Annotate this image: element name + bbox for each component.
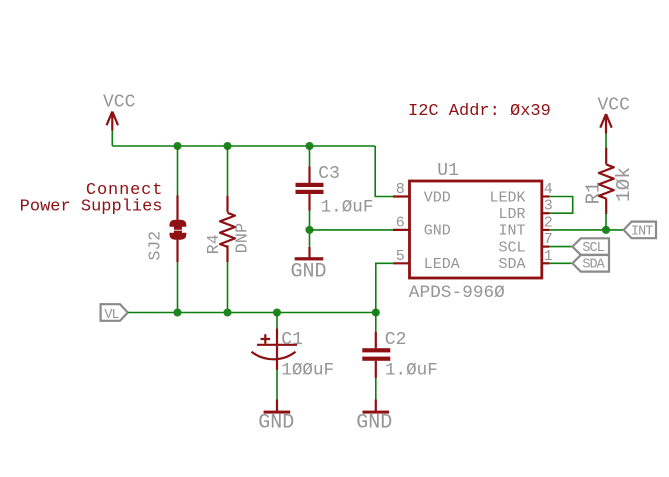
svg-text:GND: GND [290,260,326,283]
svg-text:INT: INT [498,223,525,240]
svg-text:1.ØuF: 1.ØuF [385,360,438,380]
node junction bottom C2/LEDA [372,308,380,316]
svg-text:SDA: SDA [582,258,605,273]
svg-text:R4: R4 [204,234,223,254]
svg-text:6: 6 [396,214,405,231]
svg-text:R1: R1 [583,182,605,205]
wire LEDK to LDR loop [549,197,573,214]
pin 4 LEDK stub [542,195,550,197]
capacitor C2 [362,330,437,381]
net flag SDA [572,255,609,273]
svg-text:SJ2: SJ2 [146,231,165,261]
svg-text:VDD: VDD [424,189,451,206]
power flag VCC right [598,95,631,133]
wire R4 top [227,146,229,196]
svg-text:I2C Addr: Øx39: I2C Addr: Øx39 [408,102,551,121]
svg-text:Power Supplies: Power Supplies [20,198,163,217]
svg-text:SDA: SDA [498,256,525,273]
node junction top R4 [223,142,231,150]
wire LEDA down to rail [376,263,394,312]
svg-text:C3: C3 [318,164,340,184]
svg-text:5: 5 [396,248,405,265]
wire C1 bottom [276,370,278,401]
pin 3 LDR stub [542,212,550,214]
pin 7 SCL stub [542,246,550,248]
wire top rail down to pin8 [375,146,394,197]
node junction bottom SJ2 [173,308,181,316]
svg-text:3: 3 [544,198,553,215]
svg-text:LEDA: LEDA [424,256,460,273]
svg-text:VCC: VCC [103,92,136,112]
net flag SCL [572,238,609,256]
pin 5 LEDA stub [393,262,410,264]
wire R1 top to VCC [605,134,607,149]
svg-text:C1: C1 [281,330,303,350]
wire pin1 to SDA flag [549,262,572,264]
node junction top SJ2 [173,142,181,150]
wire R1 bottom [605,214,607,230]
resistor R1 [583,148,636,214]
svg-text:VCC: VCC [598,95,631,115]
node junction top C3 [305,142,313,150]
wire pin7 to SCL flag [549,246,572,248]
svg-text:1ØØuF: 1ØØuF [281,360,334,380]
wire bottom rail [128,312,376,314]
svg-text:7: 7 [544,231,553,248]
pin 6 GND stub [393,229,410,231]
wire C3 top [309,146,311,167]
svg-text:DNP: DNP [234,223,253,254]
pin 8 VDD stub [393,195,410,197]
pin 2 INT stub [542,229,550,231]
node junction bottom C1 [273,308,281,316]
svg-text:INT: INT [631,225,653,240]
svg-text:SCL: SCL [498,239,525,256]
wire SJ2 top [177,146,179,196]
wire VCC stem [111,131,113,147]
net flag INT [624,222,656,240]
wire junction to pin6 [310,229,395,231]
svg-text:U1: U1 [437,161,459,181]
svg-text:GND: GND [356,412,392,435]
svg-text:1.ØuF: 1.ØuF [321,198,374,218]
svg-text:C2: C2 [385,330,407,350]
capacitor C1 polarized [252,329,335,381]
wire C2 bottom [375,378,377,401]
wire C1 top [276,313,278,330]
solder jumper SJ2 [146,196,187,263]
svg-text:1Øk: 1Øk [613,167,635,202]
node junction INT/R1 [602,226,610,234]
svg-text:LEDK: LEDK [489,189,525,206]
ground GND under C3 [290,247,326,283]
svg-text:8: 8 [396,181,405,198]
wire C2 top [375,313,377,333]
wire C3 to gnd junction [309,211,311,249]
wire top rail [112,145,375,147]
node junction C3/pin6 [305,226,313,234]
svg-text:1: 1 [544,248,553,265]
wire R4 bottom [227,262,229,313]
op-amp U1 APDS-9960 box [409,161,542,303]
net flag VL [101,304,128,323]
capacitor C3 [296,164,374,218]
wire SJ2 bottom [177,262,179,313]
ground GND under C2 [356,400,392,435]
svg-text:APDS-996Ø: APDS-996Ø [409,283,505,303]
ground GND under C1 [258,400,294,435]
svg-text:LDR: LDR [498,206,525,223]
resistor R4 [204,196,253,262]
svg-text:VL: VL [104,308,119,323]
power flag VCC left [103,92,136,130]
svg-text:2: 2 [544,214,553,231]
node junction bottom R4 [223,308,231,316]
svg-text:GND: GND [258,412,294,435]
svg-text:GND: GND [424,223,451,240]
svg-text:4: 4 [544,181,553,198]
wire pin2 to INT node [549,229,624,231]
text note Connect Power Supplies [20,181,164,217]
svg-text:SCL: SCL [582,241,604,256]
pin 1 SDA stub [542,262,550,264]
